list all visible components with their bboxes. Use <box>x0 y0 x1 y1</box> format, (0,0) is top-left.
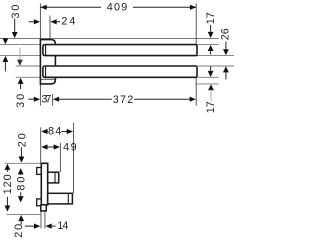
svg-text:120: 120 <box>2 174 14 194</box>
svg-text:30: 30 <box>10 5 22 19</box>
svg-text:20: 20 <box>17 133 29 147</box>
svg-text:20: 20 <box>13 224 25 238</box>
svg-text:409: 409 <box>107 1 128 13</box>
svg-text:30: 30 <box>15 94 27 108</box>
svg-text:24: 24 <box>61 15 75 27</box>
svg-text:84: 84 <box>48 125 62 137</box>
svg-text:49: 49 <box>63 141 77 153</box>
svg-text:37: 37 <box>41 93 51 105</box>
svg-text:26: 26 <box>220 28 232 40</box>
svg-text:372: 372 <box>113 94 134 106</box>
svg-text:17: 17 <box>205 12 217 24</box>
svg-text:80: 80 <box>15 177 27 191</box>
svg-text:14: 14 <box>57 220 68 232</box>
svg-text:17: 17 <box>205 101 217 113</box>
